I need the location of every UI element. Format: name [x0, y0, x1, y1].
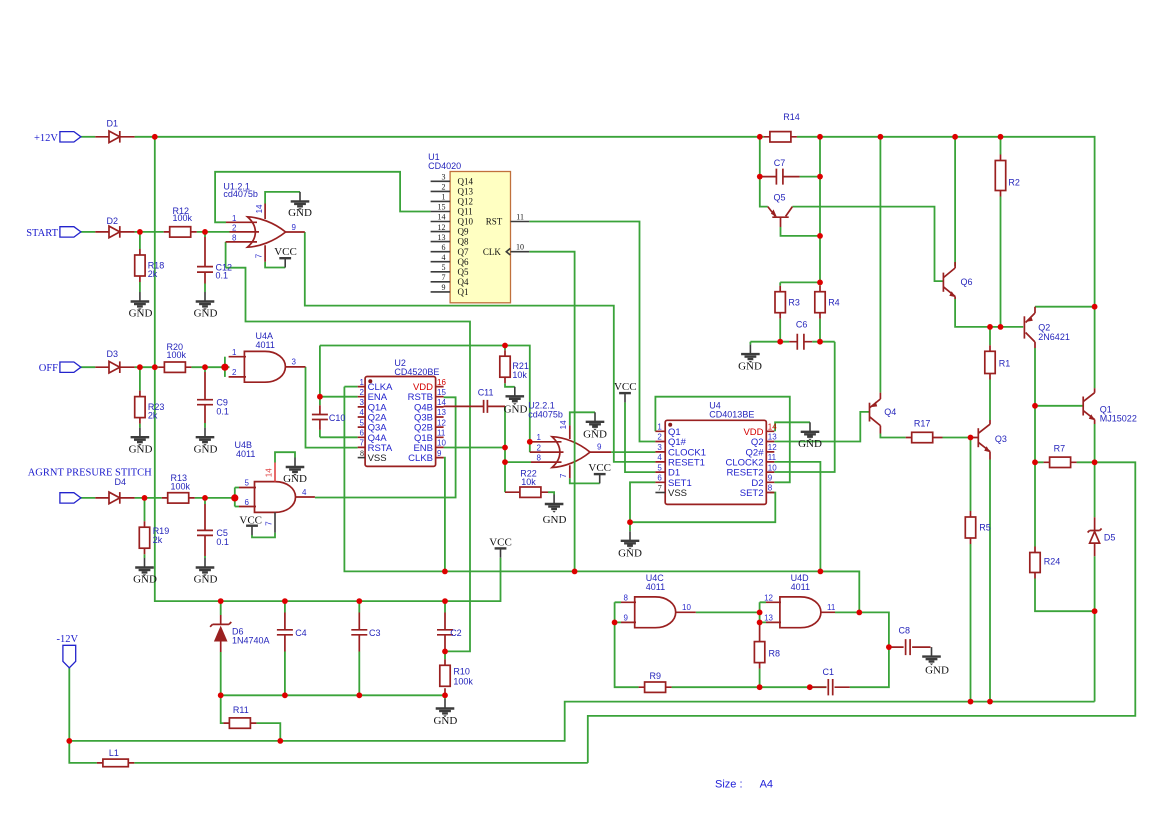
svg-text:3: 3 [442, 173, 446, 182]
svg-text:7: 7 [264, 521, 273, 526]
svg-text:GND: GND [504, 404, 528, 416]
svg-text:GND: GND [543, 514, 567, 526]
resistor R7 [1044, 443, 1077, 467]
wire C9 leads [204, 367, 206, 428]
svg-text:100k: 100k [453, 677, 473, 687]
gate U4C 4011 [635, 597, 676, 628]
resistor R17 [906, 418, 943, 442]
resistor R23 [135, 391, 165, 424]
svg-text:R4: R4 [828, 297, 840, 307]
wire L1 row [69, 741, 588, 763]
wire U2 CLKA stub link [344, 386, 357, 388]
wire Q5 collector to Q6 base [792, 207, 943, 282]
svg-text:15: 15 [437, 388, 446, 397]
svg-text:5: 5 [245, 479, 250, 488]
svg-text:1: 1 [442, 193, 446, 202]
wire U4D input jog [820, 570, 859, 572]
svg-text:7: 7 [254, 253, 263, 258]
U1 left pins [431, 173, 474, 298]
svg-text:CD4520BE: CD4520BE [394, 367, 439, 377]
vcc U2.2.1 pin7 [588, 462, 611, 483]
ground under R22 [543, 495, 567, 526]
svg-text:Q14: Q14 [458, 176, 474, 186]
wire U1.2.1 pin8 net to C2 node [226, 242, 470, 652]
U1 pin 10 CLK [483, 243, 529, 257]
wire U2 ENA to C10 [320, 346, 358, 438]
svg-text:R1: R1 [999, 358, 1011, 368]
resistor R20 [158, 342, 191, 372]
pin numbers U4B [245, 468, 307, 526]
svg-text:R24: R24 [1044, 556, 1061, 566]
wire Q1 collector [1094, 307, 1096, 389]
svg-text:4: 4 [657, 453, 662, 462]
wire Q3 emitter down [989, 460, 991, 702]
svg-text:14: 14 [437, 398, 446, 407]
resistor R5 [965, 511, 991, 544]
svg-text:4011: 4011 [236, 449, 255, 459]
svg-text:4: 4 [442, 253, 446, 262]
svg-text:START: START [26, 228, 58, 239]
svg-text:-12V: -12V [57, 634, 79, 645]
wire U4 SET1 to GND and SET2 [630, 482, 775, 531]
svg-text:Q1: Q1 [458, 287, 469, 297]
wire U1.2.1 output 9 to U4 RESET1 [305, 232, 656, 462]
svg-text:9: 9 [442, 283, 446, 292]
svg-text:3: 3 [657, 443, 662, 452]
wire U4B output 4 to U2 RSTB [315, 397, 456, 497]
pin numbers U4D [764, 594, 836, 623]
ground under C9 [194, 428, 218, 456]
IC U2 CD4520BE body [365, 358, 439, 466]
svg-text:Q5: Q5 [774, 192, 786, 202]
svg-text:2N6421: 2N6421 [1038, 332, 1070, 342]
wire oscillator line [344, 387, 859, 613]
IC U4 CD4013BE body [665, 401, 766, 505]
svg-text:R3: R3 [788, 297, 800, 307]
svg-text:2k: 2k [148, 411, 158, 421]
svg-text:11: 11 [768, 453, 777, 462]
wire U4 RESET2 to C6 node [774, 342, 834, 472]
svg-text:Q12: Q12 [458, 197, 474, 207]
svg-text:Q3: Q3 [995, 434, 1007, 444]
wire loop OR pin1 and U1 pin15 [215, 172, 431, 223]
svg-text:7: 7 [360, 439, 365, 448]
wire U2 CLKB to oscillator line [444, 458, 445, 572]
transistor Q3 [971, 420, 1007, 460]
wire R21 net to OR U2.2.1 pins 1-2 [320, 346, 530, 453]
svg-text:4011: 4011 [256, 340, 275, 350]
svg-text:R2: R2 [1008, 177, 1020, 187]
resistor R24 [1030, 547, 1061, 579]
svg-text:CLK: CLK [483, 247, 502, 257]
svg-text:10k: 10k [512, 370, 527, 380]
pin stubs U1.2.1 [226, 204, 305, 262]
svg-text:2k: 2k [148, 269, 158, 279]
svg-text:12: 12 [438, 223, 446, 232]
wire R10 bottom to GND [444, 695, 446, 699]
svg-text:11: 11 [827, 603, 836, 612]
wire U2.2.1 pin7 to VCC [570, 478, 600, 483]
wire C11 to R22 node vertical [504, 406, 506, 492]
wire Q6 collector to rail [954, 137, 956, 266]
wire capacitor bottom ground rail [221, 694, 445, 696]
wire U2 ENB to node [444, 447, 505, 449]
svg-text:15: 15 [438, 203, 446, 212]
label U4A [256, 331, 275, 350]
resistor R8 [754, 624, 780, 669]
svg-text:GND: GND [194, 443, 218, 455]
wire R7 row [1035, 461, 1095, 463]
diode D1 [95, 119, 134, 143]
wire D5 leads [1094, 462, 1096, 611]
wire U2.2.1 pin14 to GND [570, 412, 595, 425]
svg-text:R7: R7 [1054, 443, 1066, 453]
wire Q6 emitter to Q2 base [955, 299, 1023, 327]
port START [26, 227, 81, 239]
capacitor C9 [197, 372, 229, 423]
svg-text:6: 6 [245, 498, 250, 507]
pin stubs U4A [229, 357, 306, 377]
svg-text:GND: GND [288, 207, 312, 219]
resistor R22 [505, 468, 548, 497]
svg-text:6: 6 [360, 429, 365, 438]
U4 left pins [655, 423, 706, 500]
svg-text:2: 2 [360, 388, 365, 397]
wire U4B input jog [235, 488, 239, 507]
svg-text:VCC: VCC [489, 536, 512, 548]
pin numbers U2.2.1 [537, 420, 602, 478]
vcc mid rail [489, 536, 512, 557]
svg-text:Q7: Q7 [458, 247, 469, 257]
svg-text:2: 2 [232, 368, 237, 377]
svg-text:C7: C7 [774, 158, 786, 168]
wire R2 leads [1000, 137, 1002, 327]
wire U4B pin14 to GND [275, 452, 295, 462]
capacitor C8 [891, 625, 931, 655]
port +12V [34, 132, 81, 144]
svg-text:12: 12 [437, 418, 446, 427]
svg-text:CD4013BE: CD4013BE [709, 410, 754, 420]
wire U4C input net [615, 602, 639, 687]
svg-text:VCC: VCC [274, 246, 297, 258]
svg-text:1: 1 [360, 378, 365, 387]
svg-text:2: 2 [442, 183, 446, 192]
svg-text:Q11: Q11 [458, 207, 473, 217]
wire -12V line A [69, 702, 1094, 741]
svg-text:R10: R10 [453, 667, 470, 677]
wire Q2 emitter row [1035, 306, 1095, 308]
svg-text:8: 8 [232, 234, 237, 243]
ground C8 [922, 647, 949, 677]
svg-text:7: 7 [559, 473, 568, 478]
svg-text:1: 1 [657, 423, 662, 432]
svg-text:9: 9 [292, 223, 297, 232]
svg-text:GND: GND [194, 308, 218, 320]
svg-text:10: 10 [682, 603, 691, 612]
svg-text:0.1: 0.1 [216, 537, 229, 547]
ground U1.2.1 pin14 [288, 192, 312, 219]
svg-text:D4: D4 [115, 477, 127, 487]
svg-text:A4: A4 [760, 779, 773, 791]
wire R4 leads [819, 319, 821, 342]
svg-text:14: 14 [438, 213, 446, 222]
wire VCC to U4 D1 [625, 402, 655, 472]
svg-text:GND: GND [129, 308, 153, 320]
svg-text:R14: R14 [783, 112, 800, 122]
svg-text:13: 13 [438, 233, 446, 242]
wire x760 vertical R14 left to Q5 [760, 137, 768, 207]
wire U4A input jog [224, 357, 226, 377]
svg-text:SET2: SET2 [740, 488, 764, 499]
svg-text:4011: 4011 [791, 582, 810, 592]
wire OFF row [81, 366, 230, 368]
svg-text:2: 2 [537, 443, 542, 452]
svg-text:GND: GND [618, 548, 642, 560]
resistor R1 [985, 345, 1011, 379]
svg-text:11: 11 [437, 429, 446, 438]
wire START port to D2 [81, 231, 96, 233]
svg-text:C8: C8 [899, 625, 911, 635]
svg-text:D1: D1 [107, 119, 119, 129]
svg-text:R17: R17 [914, 418, 931, 428]
ground U4 VDD [798, 422, 822, 450]
svg-text:GND: GND [583, 429, 607, 441]
svg-text:C2: C2 [450, 628, 462, 638]
wire C6 rail [750, 342, 834, 345]
label U2.2.1 [528, 400, 563, 419]
svg-text:4: 4 [302, 488, 307, 497]
gate U4D 4011 [780, 597, 821, 628]
svg-text:L1: L1 [109, 748, 119, 758]
svg-text:12: 12 [764, 594, 773, 603]
svg-text:5: 5 [442, 263, 446, 272]
resistor R21 [500, 350, 529, 383]
inductor L1 [97, 748, 134, 767]
wire R17 row [880, 434, 970, 438]
wire C4 leads [284, 601, 286, 695]
svg-text:8: 8 [537, 453, 542, 462]
svg-text:Q5: Q5 [458, 267, 469, 277]
label U4D [791, 573, 810, 592]
resistor R14 [764, 112, 800, 142]
svg-text:VCC: VCC [614, 381, 637, 393]
wire Q5 base to x820 [781, 227, 821, 236]
vcc U4B pin7 [239, 514, 262, 535]
svg-text:VSS: VSS [668, 488, 687, 499]
transistor Q1 MJ15022 [1083, 388, 1137, 424]
svg-text:5: 5 [657, 463, 662, 472]
pin numbers U4A [232, 348, 296, 377]
wire -12V port drop [68, 668, 70, 741]
capacitor C10 [312, 405, 346, 430]
svg-text:1: 1 [232, 214, 237, 223]
svg-text:16: 16 [437, 378, 446, 387]
resistor R10 [440, 659, 474, 694]
wire D6 R11 branch [221, 695, 281, 741]
pin stubs U4B [239, 463, 315, 533]
pin stubs U4C [621, 602, 696, 622]
wire AGRNT row [81, 497, 235, 499]
wire R3 R4 top link [780, 281, 820, 283]
wire R5 branch [970, 438, 972, 702]
wire U1.2.1 pin7 to VCC [265, 262, 285, 268]
wire U4 CLOCK2 to oscillator line [774, 462, 820, 572]
svg-text:RST: RST [486, 217, 503, 227]
wire R3 leads [779, 282, 781, 341]
svg-text:3: 3 [292, 357, 297, 366]
svg-text:D3: D3 [107, 349, 119, 359]
wire node to OR pin8 [505, 461, 531, 463]
ground under C5 [194, 558, 218, 585]
svg-text:C4: C4 [295, 628, 307, 638]
wire R23 leads [139, 367, 141, 428]
svg-text:C10: C10 [329, 413, 346, 423]
svg-text:Q8: Q8 [458, 237, 469, 247]
svg-text:11: 11 [516, 213, 524, 222]
svg-text:GND: GND [925, 665, 949, 677]
svg-text:GND: GND [129, 443, 153, 455]
svg-text:1: 1 [537, 433, 542, 442]
U2 right pins [408, 378, 447, 464]
svg-text:+12V: +12V [34, 133, 58, 144]
diode D4 [95, 477, 134, 504]
wire Q3 collector to R1 [989, 327, 991, 420]
svg-text:C3: C3 [369, 628, 381, 638]
svg-text:9: 9 [437, 449, 442, 458]
ground U2.2.1 pin14 [583, 412, 607, 440]
svg-text:R5: R5 [979, 522, 991, 532]
pin stubs U4D [766, 602, 835, 622]
svg-text:GND: GND [433, 715, 457, 727]
resistor R4 [815, 286, 840, 319]
svg-text:10k: 10k [521, 477, 536, 487]
wire Q1 base [1035, 405, 1083, 407]
svg-text:GND: GND [194, 573, 218, 585]
capacitor C7 [760, 158, 800, 184]
wire U4D output net [835, 612, 889, 687]
wire R8 bottom lead [759, 669, 761, 688]
wire U1.2.1 pin14 to GND [265, 192, 300, 204]
svg-text:13: 13 [764, 614, 773, 623]
svg-text:GND: GND [738, 361, 762, 373]
svg-text:GND: GND [798, 438, 822, 450]
svg-text:100k: 100k [167, 350, 187, 360]
svg-text:2: 2 [232, 224, 237, 233]
svg-text:C1: C1 [823, 667, 835, 677]
wire C5 leads [204, 498, 206, 558]
diode D3 [95, 349, 134, 373]
resistor R3 [775, 286, 800, 319]
svg-text:GND: GND [283, 473, 307, 485]
svg-text:7: 7 [442, 273, 446, 282]
pin stubs U2.2.1 [530, 425, 611, 478]
svg-text:Q9: Q9 [458, 227, 469, 237]
ground C6 R3 [738, 345, 762, 373]
wire +12V rail to R14 [135, 136, 764, 138]
svg-text:13: 13 [437, 408, 446, 417]
svg-text:14: 14 [559, 420, 568, 429]
svg-text:9: 9 [597, 443, 602, 452]
transistor Q4 [870, 393, 897, 434]
wire C2 leads [444, 601, 446, 695]
wire +12V rail right and drop to Q2 emitter row [797, 137, 1095, 307]
wire +12V rail left [81, 136, 96, 138]
wire D5 node down to line A [1094, 611, 1096, 701]
wire U1 CLK to oscillator line [529, 252, 574, 572]
svg-text:R9: R9 [650, 671, 662, 681]
capacitor C1 [810, 667, 850, 695]
resistor R12 [164, 206, 197, 237]
capacitor C5 [197, 504, 229, 556]
resistor R13 [162, 473, 195, 503]
svg-text:VSS: VSS [368, 453, 387, 464]
svg-text:14: 14 [264, 468, 273, 477]
resistor R19 [139, 521, 169, 554]
resistor R11 [223, 705, 256, 728]
svg-text:8: 8 [768, 484, 773, 493]
svg-text:1: 1 [232, 348, 237, 357]
wire C7 right lead link [800, 176, 820, 178]
zener diode D5 [1088, 517, 1116, 556]
svg-text:100k: 100k [173, 213, 193, 223]
pin numbers U4C [624, 594, 692, 623]
wire +12V vertical x155 down to capacitor rail [155, 137, 501, 601]
svg-text:D2: D2 [107, 216, 119, 226]
diode D2 [95, 216, 134, 238]
vcc U1.2.1 pin7 [274, 246, 297, 268]
wire R19 leads [144, 498, 146, 558]
svg-text:100k: 100k [171, 482, 191, 492]
svg-text:Size :: Size : [715, 779, 743, 791]
resistor R2 [995, 155, 1020, 197]
svg-text:1N4740A: 1N4740A [232, 636, 270, 646]
capacitor C6 [789, 319, 812, 349]
svg-text:Q13: Q13 [458, 187, 474, 197]
wire U1 RST to U4 Q1# [529, 222, 655, 442]
svg-text:12: 12 [768, 443, 777, 452]
gate U4A 4011 [244, 351, 285, 382]
wire R18 leads [139, 232, 141, 292]
svg-text:CLKB: CLKB [408, 453, 433, 464]
svg-text:R11: R11 [233, 705, 249, 715]
wire U4A output to U2 RSTA [306, 367, 358, 448]
svg-text:Q4: Q4 [884, 407, 896, 417]
svg-text:10: 10 [516, 243, 524, 252]
pin numbers U1.2.1 [232, 204, 296, 258]
capacitor C11 [444, 387, 505, 413]
gate U4B 4011 [255, 482, 296, 513]
svg-text:AGRNT PRESURE STITCH: AGRNT PRESURE STITCH [28, 468, 152, 479]
vcc to U4 D1 [614, 381, 637, 402]
ground under R19 [133, 558, 157, 585]
U2 left pins [358, 378, 393, 464]
capacitor C12 [197, 237, 232, 284]
ground U4 SET net [618, 531, 642, 559]
svg-text:CD4020: CD4020 [428, 161, 461, 171]
label U1.2.1 [223, 181, 258, 199]
capacitor C3 [351, 613, 380, 652]
svg-text:OFF: OFF [39, 363, 58, 374]
gate U1.2.1 cd4075b 3-input OR [248, 217, 286, 247]
svg-text:VCC: VCC [588, 462, 611, 474]
ground under R10 [433, 699, 457, 727]
svg-text:0.1: 0.1 [216, 271, 229, 281]
zener diode D6 1N4740A [210, 615, 269, 652]
wire R21 leads [505, 346, 515, 387]
svg-text:Q4: Q4 [458, 277, 469, 287]
svg-text:2: 2 [657, 433, 662, 442]
U4 right pins [725, 423, 777, 500]
